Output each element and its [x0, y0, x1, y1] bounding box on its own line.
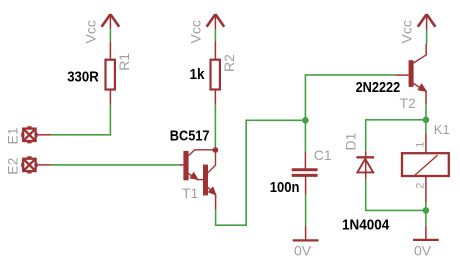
svg-text:330R: 330R [67, 68, 99, 85]
pad E1 [21, 126, 51, 143]
transistor T2 (2N2222) [395, 44, 426, 105]
wire node to D1 top [366, 120, 426, 152]
svg-text:100n: 100n [270, 178, 300, 195]
svg-text:R2: R2 [221, 54, 237, 72]
resistor R1 [106, 41, 115, 105]
svg-text:C1: C1 [314, 147, 332, 163]
wire Vcc to R1 top [109, 29, 111, 41]
supply VCC symbol (middle, above R2) [207, 14, 225, 29]
svg-text:0V: 0V [414, 242, 432, 258]
supply VCC symbol (right, above T2) [418, 14, 436, 30]
ground 0V (right) [413, 226, 439, 240]
svg-text:R1: R1 [116, 53, 132, 71]
svg-text:T1: T1 [182, 185, 199, 201]
wire T1 emitter loop to node [216, 120, 305, 225]
svg-text:0V: 0V [294, 242, 312, 258]
svg-text:2: 2 [414, 183, 426, 189]
wire node to K1 pin 1 [425, 120, 427, 134]
wire node to ground [425, 210, 427, 226]
wire node down to C1 [304, 120, 306, 152]
svg-text:Vcc: Vcc [188, 20, 204, 43]
wire node to T2 base [305, 75, 395, 120]
wire Vcc to R2 top [214, 29, 216, 41]
wire K1 pin2 to node [425, 203, 427, 211]
svg-text:1: 1 [414, 142, 426, 148]
junction dot T1 collector [213, 147, 219, 153]
wire R1 bottom to E1 [51, 105, 110, 135]
svg-text:E2: E2 [5, 157, 21, 174]
diode D1 [356, 152, 374, 179]
svg-text:BC517: BC517 [170, 126, 210, 143]
svg-text:Vcc: Vcc [399, 20, 415, 43]
svg-text:T2: T2 [400, 95, 417, 111]
svg-text:2N2222: 2N2222 [356, 78, 401, 95]
transistor T1 (darlington BC517) [179, 150, 216, 210]
ground 0V (left) [293, 226, 319, 241]
junction node C1 top [302, 117, 309, 124]
capacitor C1 [292, 152, 318, 195]
svg-text:K1: K1 [434, 122, 450, 137]
wire C1 bottom to ground [305, 195, 307, 226]
svg-text:E1: E1 [5, 127, 21, 144]
wire node to D1 bottom [366, 179, 426, 211]
wire T2 emitter to node [425, 105, 427, 120]
supply VCC symbol (left, above R1) [102, 14, 120, 29]
wire R2 bottom to T1 collector node [214, 105, 216, 148]
svg-text:1k: 1k [190, 66, 205, 83]
svg-text:D1: D1 [343, 132, 359, 150]
junction node bottom [423, 207, 430, 214]
svg-text:Vcc: Vcc [83, 20, 99, 43]
resistor R2 [211, 41, 220, 105]
pad E2 [21, 156, 51, 173]
relay K1 [402, 134, 449, 203]
junction node K1 top [423, 117, 430, 124]
wire Vcc to T2 collector [426, 30, 428, 44]
svg-text:1N4004: 1N4004 [342, 217, 389, 234]
wire E2 to T1 base [51, 164, 179, 166]
